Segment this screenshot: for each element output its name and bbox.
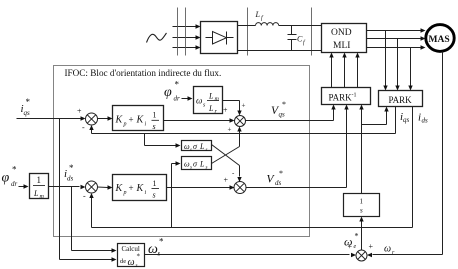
svg-text:p: p: [123, 190, 127, 196]
svg-text:-1: -1: [352, 93, 357, 99]
svg-text:-: -: [232, 169, 235, 177]
svg-text:σ: σ: [193, 142, 198, 151]
svg-text:φ: φ: [164, 85, 172, 100]
svg-text:+: +: [224, 176, 229, 185]
svg-text:+: +: [228, 126, 232, 134]
svg-text:*: *: [69, 163, 74, 173]
svg-text:1: 1: [360, 198, 364, 206]
svg-text:K: K: [115, 183, 124, 194]
svg-text:*: *: [279, 169, 283, 178]
svg-text:qs: qs: [279, 111, 286, 119]
svg-text:de: de: [120, 258, 126, 265]
svg-text:L: L: [255, 10, 261, 19]
svg-text:*: *: [159, 237, 164, 247]
svg-text:s: s: [190, 166, 192, 171]
svg-text:L: L: [33, 189, 39, 198]
svg-text:r: r: [392, 250, 395, 256]
svg-text:s: s: [153, 122, 156, 131]
svg-text:1: 1: [37, 175, 42, 185]
svg-text:m: m: [215, 97, 220, 103]
svg-text:PARK: PARK: [329, 93, 353, 103]
svg-text:+: +: [369, 242, 374, 251]
svg-text:p: p: [123, 122, 127, 128]
svg-text:ds: ds: [67, 175, 74, 183]
svg-text:MLI: MLI: [333, 41, 350, 51]
svg-text:s: s: [190, 148, 192, 153]
svg-text:e: e: [354, 244, 357, 250]
svg-text:+: +: [77, 107, 82, 116]
svg-text:m: m: [40, 194, 45, 200]
svg-text:+: +: [129, 183, 134, 193]
svg-text:f: f: [261, 15, 264, 22]
svg-text:OND: OND: [331, 28, 352, 38]
svg-text:dr: dr: [174, 95, 181, 103]
svg-text:PARK: PARK: [389, 95, 413, 105]
svg-text:s: s: [158, 250, 161, 258]
svg-text:qs: qs: [24, 109, 31, 117]
svg-text:K: K: [115, 115, 124, 126]
svg-text:ω: ω: [196, 96, 202, 106]
svg-text:*: *: [355, 232, 359, 241]
svg-text:s: s: [136, 264, 138, 269]
svg-text:dr: dr: [11, 180, 18, 188]
svg-text:*: *: [26, 97, 31, 107]
svg-text:s: s: [203, 103, 206, 109]
svg-text:*: *: [282, 100, 286, 109]
svg-text:1: 1: [153, 111, 157, 120]
svg-text:ω: ω: [384, 244, 391, 255]
svg-text:-: -: [82, 123, 85, 132]
svg-text:1: 1: [153, 179, 157, 188]
svg-text:L: L: [208, 92, 214, 101]
svg-text:ω: ω: [128, 257, 135, 268]
svg-text:+: +: [348, 242, 353, 251]
svg-text:*: *: [137, 253, 141, 261]
svg-text:L: L: [199, 160, 205, 169]
svg-text:qs: qs: [403, 116, 410, 124]
svg-text:i: i: [145, 190, 147, 196]
svg-text:K: K: [136, 115, 145, 126]
svg-text:+: +: [242, 102, 246, 110]
svg-text:i: i: [145, 122, 147, 128]
svg-text:L: L: [208, 104, 214, 113]
svg-text:IFOC: Bloc d'orientation indir: IFOC: Bloc d'orientation indirecte du fl…: [65, 68, 222, 78]
svg-text:L: L: [199, 142, 205, 151]
svg-text:s: s: [153, 191, 156, 200]
svg-text:s: s: [360, 207, 363, 215]
svg-text:φ: φ: [2, 171, 10, 186]
svg-text:*: *: [175, 80, 180, 90]
svg-text:+: +: [129, 115, 134, 125]
svg-text:σ: σ: [193, 160, 198, 169]
svg-text:*: *: [12, 165, 17, 175]
svg-text:+: +: [223, 106, 228, 115]
svg-text:s: s: [206, 148, 208, 153]
svg-text:-: -: [83, 192, 86, 201]
svg-text:ω: ω: [148, 242, 158, 257]
svg-text:MAS: MAS: [429, 35, 450, 45]
svg-text:s: s: [206, 166, 208, 171]
svg-text:ds: ds: [275, 179, 282, 187]
svg-text:ds: ds: [422, 117, 429, 125]
svg-text:f: f: [303, 39, 306, 46]
svg-text:K: K: [136, 183, 145, 194]
